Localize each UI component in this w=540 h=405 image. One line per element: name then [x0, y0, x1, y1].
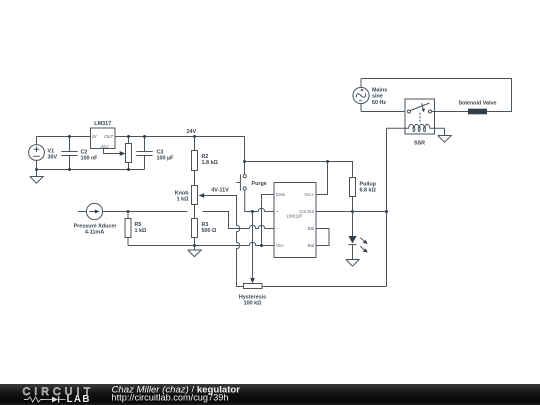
svg-text:Pressure Xducer: Pressure Xducer	[74, 224, 118, 230]
resistor R5	[125, 212, 147, 246]
wire: knob wiper 4V-11V to hysteresis left (with hops)	[204, 196, 244, 287]
svg-text:R5: R5	[135, 222, 142, 228]
svg-text:Vcc-: Vcc-	[276, 243, 285, 248]
wire: hysteresis wiper drop (arrow)	[250, 212, 255, 284]
comparator U1 LM311P	[274, 183, 316, 258]
node dot purge tap	[243, 160, 246, 163]
node dot col out / relay junction	[385, 210, 388, 213]
svg-text:http://circuitlab.com/cug739h: http://circuitlab.com/cug739h	[112, 393, 229, 403]
svg-text:Hysteresis: Hysteresis	[239, 295, 266, 301]
potentiometer Knob	[175, 186, 204, 205]
svg-text:C2: C2	[81, 149, 88, 155]
wire: V1 bottom lead	[36, 160, 38, 169]
wire: solenoid to right loop	[487, 111, 512, 113]
wire: ground rail (second row, with hop)	[128, 242, 274, 245]
LED D1	[348, 212, 367, 260]
svg-text:Mains: Mains	[372, 88, 387, 94]
svg-text:1.8 kΩ: 1.8 kΩ	[202, 160, 219, 166]
svg-text:LAB: LAB	[67, 394, 91, 405]
svg-text:OUT: OUT	[104, 134, 113, 139]
footer credit text	[112, 384, 241, 402]
svg-text:R2: R2	[202, 154, 209, 160]
potentiometer (adjust)	[126, 137, 132, 170]
wire: relay switch to solenoid	[432, 111, 469, 113]
svg-text:V1: V1	[48, 149, 55, 155]
svg-text:24V: 24V	[187, 129, 197, 135]
wire: Vcc+ to 24V sub-rail	[316, 162, 328, 195]
wire: emit to ground rail	[262, 195, 275, 246]
wire: Col Out to junction	[316, 211, 387, 213]
wire: rail to pullup top	[245, 162, 353, 178]
capacitor C3	[136, 137, 174, 162]
svg-text:Purge: Purge	[252, 181, 267, 187]
svg-text:Emit.: Emit.	[276, 192, 286, 197]
svg-text:SSR: SSR	[414, 141, 425, 147]
relay SSR	[405, 99, 435, 147]
svg-text:R3: R3	[202, 222, 209, 228]
ground (under R3)	[188, 246, 201, 257]
svg-text:LM317: LM317	[94, 121, 111, 127]
regulator U2 LM317	[91, 121, 116, 149]
wire: ground rail (left)	[37, 156, 145, 170]
voltage source V1	[29, 145, 58, 161]
svg-text:1 kΩ: 1 kΩ	[135, 228, 147, 234]
node dot hysteresis wiper tap	[251, 210, 254, 213]
resistor R3	[192, 205, 217, 246]
svg-text:Vcc+: Vcc+	[304, 192, 314, 197]
svg-text:100 nF: 100 nF	[81, 155, 99, 161]
wire: Bal bracket	[316, 229, 329, 246]
node dot pullup bottom	[351, 210, 354, 213]
potentiometer Hysteresis	[239, 284, 266, 307]
node dot pot bottom	[127, 168, 130, 171]
wire: relay coil left to col out junction	[387, 127, 406, 129]
node dot C2 top	[68, 135, 71, 138]
node dot R2 top	[193, 135, 196, 138]
svg-text:100 µF: 100 µF	[157, 155, 175, 161]
capacitor C2	[61, 137, 98, 170]
current source Pressure Xducer	[74, 203, 118, 235]
wire: V1 top to LM317 IN rail	[37, 137, 91, 145]
node dot Vcc+ tap	[326, 160, 329, 163]
wire: relay coil right to ground	[435, 128, 445, 135]
svg-text:6.8 kΩ: 6.8 kΩ	[360, 188, 377, 194]
svg-text:30V: 30V	[48, 155, 58, 161]
node dot C3 top	[143, 135, 146, 138]
wire: purge bottom to comparator plus (hop at emit wire)	[245, 190, 274, 212]
ground (under LED)	[346, 260, 359, 267]
svg-text:60 Hz: 60 Hz	[372, 100, 386, 106]
ground (under SSR)	[438, 136, 451, 143]
node dot R5 top	[127, 210, 130, 213]
svg-text:sine: sine	[372, 94, 383, 100]
footer bar	[0, 384, 540, 405]
wire: LM317 ADJ to pot wiper (arrow)	[104, 149, 126, 156]
wire: xducer output to comparator minus (gap hop at knob chain, hops right)	[103, 212, 274, 229]
svg-text:LM311P: LM311P	[287, 213, 303, 218]
wire: 24V output rail	[115, 136, 245, 138]
node dot V1 bottom	[35, 168, 38, 171]
svg-text:100 kΩ: 100 kΩ	[244, 301, 262, 307]
svg-text:Pullup: Pullup	[360, 182, 377, 188]
wire: hysteresis right to relay coil / col out junction	[262, 128, 387, 286]
svg-text:500 Ω: 500 Ω	[202, 228, 217, 234]
node dot emit/vcc- join	[260, 244, 263, 247]
svg-text:4V-11V: 4V-11V	[211, 188, 229, 194]
logo CircuitLab	[23, 386, 95, 405]
svg-text:Bal: Bal	[308, 243, 314, 248]
resistor R2	[192, 137, 219, 186]
svg-text:1 kΩ: 1 kΩ	[177, 197, 189, 203]
svg-text:Knob: Knob	[175, 190, 189, 196]
resistor Pullup	[350, 178, 377, 212]
ground (under V1)	[30, 170, 43, 184]
pushbutton Purge	[236, 174, 266, 190]
wire: mains top loop	[361, 79, 512, 112]
svg-text:4-11mA: 4-11mA	[85, 230, 104, 236]
svg-text:Bal: Bal	[308, 226, 314, 231]
fuse Solenoid Valve	[458, 101, 496, 115]
node dot C2 bottom	[68, 168, 71, 171]
voltage source Mains sine	[353, 79, 387, 112]
wire: mains bottom to relay switch	[361, 111, 407, 113]
svg-text:ADJ: ADJ	[99, 144, 109, 149]
svg-text:C3: C3	[157, 149, 164, 155]
svg-text:Solenoid Valve: Solenoid Valve	[458, 101, 496, 107]
wire: 24V drop to purge and pullup rail	[244, 137, 246, 175]
node dot R3 bottom	[193, 244, 196, 247]
node dot pot top	[127, 135, 130, 138]
